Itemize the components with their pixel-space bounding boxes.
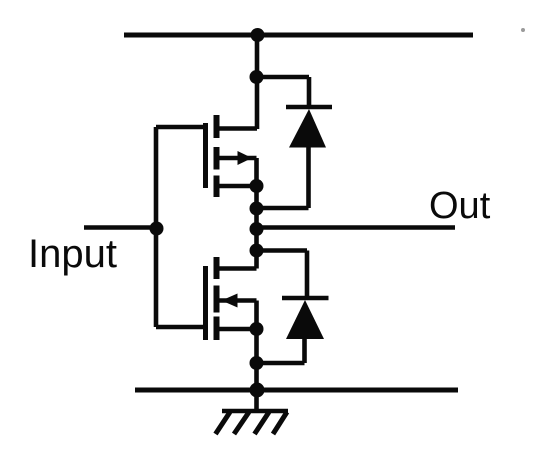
transistor Q2 NMOS source stub bbox=[219, 327, 257, 332]
wire NMOS source to ground bbox=[254, 329, 259, 410]
ground symbol hatches bbox=[216, 412, 288, 434]
node junction at VSS rail bbox=[250, 383, 265, 398]
transistor Q2 NMOS gate plate bbox=[203, 266, 208, 340]
ground symbol bar bbox=[222, 409, 288, 414]
wire input riser bbox=[154, 127, 159, 327]
transistor Q1 PMOS gate lead bbox=[156, 125, 205, 130]
diode D2 body bbox=[286, 300, 324, 339]
transistor Q2 NMOS gate lead bbox=[156, 325, 205, 330]
node junction PMOS drain / D1 branch bbox=[250, 70, 264, 84]
transistor Q2 NMOS drain stub bbox=[219, 266, 257, 271]
diode D2 cathode bar bbox=[282, 296, 329, 301]
transistor Q1 PMOS drain stub bbox=[219, 126, 257, 131]
node junction D2 cathode branch bbox=[250, 244, 264, 258]
diode D1 body bbox=[289, 109, 326, 148]
wire VDD top rail bbox=[124, 33, 473, 38]
node output junction bbox=[250, 222, 264, 236]
wire D2 anode to NMOS source bbox=[257, 338, 305, 363]
node junction at VDD rail bbox=[251, 28, 265, 42]
wire VSS bottom rail bbox=[135, 388, 458, 393]
node junction D1 anode return bbox=[250, 202, 264, 216]
wire VDD drop to PMOS drain bbox=[255, 35, 260, 129]
transistor Q1 PMOS body stub bbox=[219, 158, 257, 186]
wire output column bbox=[254, 186, 259, 269]
wire branch to D1 cathode bbox=[257, 77, 310, 107]
transistor Q1 PMOS body arrow bbox=[238, 151, 253, 165]
diode D1 cathode bar bbox=[286, 105, 332, 110]
transistor Q2 NMOS body arrow bbox=[222, 294, 238, 308]
wire Out line bbox=[257, 225, 456, 230]
transistor Q1 PMOS source stub bbox=[219, 184, 257, 189]
wire Input lead bbox=[84, 225, 157, 230]
node junction NMOS source bbox=[250, 322, 264, 336]
transistor Q1 PMOS channel segments bbox=[214, 115, 220, 197]
transistor Q2 NMOS channel segments bbox=[214, 257, 220, 340]
wire D1 anode to output node bbox=[257, 146, 309, 208]
label Input bbox=[28, 232, 117, 277]
wire branch to D2 cathode bbox=[257, 251, 308, 299]
node junction D2 anode return bbox=[250, 356, 264, 370]
label Out bbox=[429, 185, 490, 228]
transistor Q1 PMOS gate plate bbox=[203, 123, 208, 188]
node input junction bbox=[150, 222, 164, 236]
transistor Q2 NMOS body stub bbox=[219, 301, 257, 330]
speck artifact top right bbox=[521, 28, 525, 32]
node junction PMOS source bbox=[250, 179, 264, 193]
